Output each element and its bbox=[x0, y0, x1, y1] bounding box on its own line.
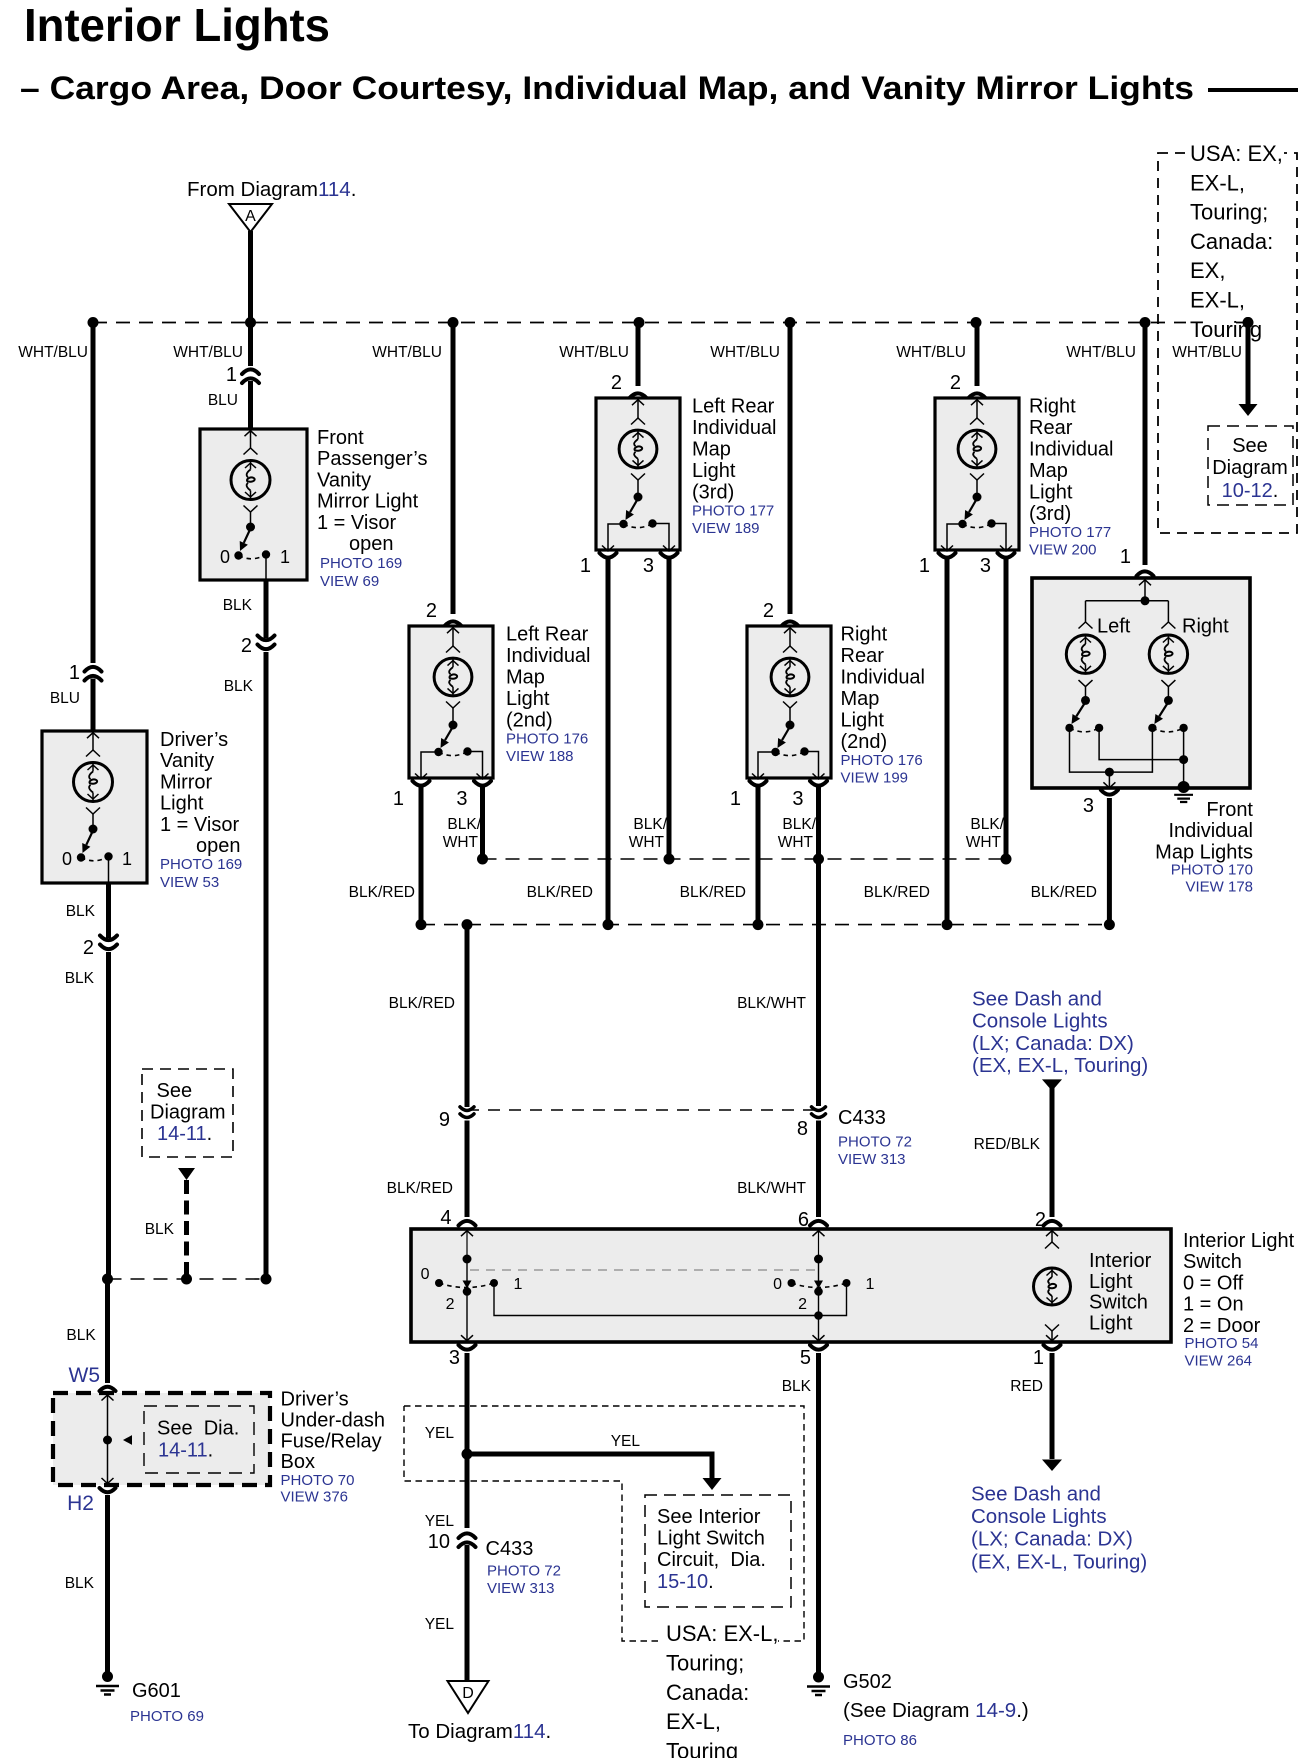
svg-text:10: 10 bbox=[428, 1531, 450, 1553]
pin 2 connector fork bbox=[969, 393, 986, 398]
svg-text:VIEW 199: VIEW 199 bbox=[841, 770, 909, 787]
junction dots BLK/WHT bbox=[477, 854, 488, 865]
svg-text:Right: Right bbox=[1182, 616, 1229, 638]
svg-text:VIEW 53: VIEW 53 bbox=[160, 874, 219, 891]
svg-text:Rear: Rear bbox=[1029, 417, 1073, 439]
svg-text:Diagram: Diagram bbox=[150, 1102, 226, 1124]
pin 3 fork (front map lights) bbox=[1101, 790, 1118, 795]
svg-text:See Dash and: See Dash and bbox=[972, 988, 1102, 1011]
svg-text:0: 0 bbox=[62, 849, 72, 869]
svg-text:Right: Right bbox=[841, 624, 888, 646]
svg-text:WHT/BLU: WHT/BLU bbox=[1172, 344, 1242, 361]
svg-text:BLU: BLU bbox=[50, 690, 80, 707]
svg-text:VIEW 264: VIEW 264 bbox=[1185, 1353, 1253, 1370]
variant dashed region (YEL branch) bbox=[404, 1406, 804, 1641]
wire: driver vanity lamp to connector 2 (BLK) bbox=[106, 883, 111, 938]
C433 cavity 9 chevrons bbox=[460, 1107, 474, 1111]
svg-text:Individual: Individual bbox=[841, 667, 926, 689]
svg-text:9: 9 bbox=[439, 1109, 450, 1131]
pin 2 connector fork bbox=[782, 621, 799, 626]
svg-text:VIEW 200: VIEW 200 bbox=[1029, 542, 1097, 559]
svg-text:3: 3 bbox=[449, 1347, 460, 1369]
C433 cavity 8 chevrons bbox=[812, 1107, 826, 1111]
interior light switch internals: pin 6 entry bbox=[813, 1231, 825, 1237]
svg-text:Vanity: Vanity bbox=[317, 469, 371, 491]
svg-text:Circuit, Dia.: Circuit, Dia. bbox=[657, 1549, 766, 1571]
svg-text:YEL: YEL bbox=[425, 1425, 455, 1442]
svg-text:YEL: YEL bbox=[425, 1513, 455, 1530]
svg-text:PHOTO 72: PHOTO 72 bbox=[838, 1134, 912, 1151]
svg-text:2: 2 bbox=[611, 372, 622, 394]
svg-text:BLK/WHT: BLK/WHT bbox=[737, 995, 806, 1012]
wire: C433 to switch pin 4 (BLK/RED) bbox=[465, 1121, 470, 1218]
svg-text:Light: Light bbox=[1089, 1271, 1133, 1293]
svg-text:BLK/RED: BLK/RED bbox=[527, 884, 593, 901]
off-page connector D (triangle) bbox=[448, 1681, 489, 1713]
map light switch to pins 1 and 3 bbox=[421, 752, 439, 779]
pin 2 connector fork bbox=[445, 621, 462, 626]
svg-text:1: 1 bbox=[1033, 1347, 1044, 1369]
map light lamp internals bbox=[784, 628, 796, 634]
switch pin 6 fork bbox=[810, 1221, 827, 1226]
front passenger vanity lamp internals bbox=[245, 431, 257, 437]
svg-text:Individual: Individual bbox=[1168, 820, 1253, 842]
svg-text:2: 2 bbox=[426, 600, 437, 622]
svg-text:1: 1 bbox=[919, 555, 930, 577]
svg-text:BLK: BLK bbox=[782, 1378, 812, 1395]
driver's under-dash fuse/relay box (dashed) bbox=[53, 1393, 270, 1485]
svg-text:See Interior: See Interior bbox=[657, 1506, 761, 1528]
svg-text:Left: Left bbox=[1097, 616, 1131, 638]
wire: vanity lamp to connector 2 (BLK) bbox=[264, 580, 269, 638]
switch 1 position-1 contact wiring bbox=[494, 1285, 847, 1316]
svg-text:Map Lights: Map Lights bbox=[1155, 842, 1253, 864]
svg-text:G601: G601 bbox=[132, 1680, 181, 1702]
see diagram 10-12 reference box bbox=[1208, 426, 1293, 505]
svg-text:BLK: BLK bbox=[66, 1327, 96, 1344]
svg-text:WHT/BLU: WHT/BLU bbox=[1066, 344, 1136, 361]
wire: YEL branch to interior light switch circuit bbox=[467, 1454, 712, 1479]
connector C433 cavity 10 bbox=[459, 1533, 476, 1538]
svg-text:C433: C433 bbox=[486, 1538, 534, 1560]
svg-text:1 = Visor: 1 = Visor bbox=[160, 814, 239, 836]
svg-text:4: 4 bbox=[440, 1207, 451, 1229]
interior light switch light (lamp) bbox=[1046, 1231, 1058, 1237]
map light switch to pins 1 and 3 bbox=[608, 524, 624, 551]
svg-text:USA: EX,: USA: EX, bbox=[1190, 141, 1283, 166]
svg-text:See Dia.: See Dia. bbox=[157, 1418, 239, 1440]
svg-text:2: 2 bbox=[798, 1296, 807, 1313]
junction dot YEL branch bbox=[462, 1449, 473, 1460]
switch pin 3 fork bbox=[459, 1345, 476, 1350]
wire: LR 2nd pin 1 to BLK/RED junction bbox=[419, 787, 424, 925]
see diagram 14-11 reference box bbox=[142, 1069, 233, 1157]
svg-text:PHOTO 86: PHOTO 86 bbox=[843, 1732, 917, 1749]
svg-text:1: 1 bbox=[226, 364, 237, 386]
subtitle right rule bbox=[1208, 88, 1298, 92]
svg-text:Individual: Individual bbox=[506, 645, 591, 667]
svg-text:0: 0 bbox=[421, 1266, 430, 1283]
svg-text:WHT: WHT bbox=[443, 834, 479, 851]
switch pin 2 fork bbox=[1044, 1221, 1061, 1226]
svg-text:Light: Light bbox=[692, 460, 736, 482]
svg-text:BLK/RED: BLK/RED bbox=[680, 884, 746, 901]
svg-text:15-10.: 15-10. bbox=[657, 1571, 714, 1593]
svg-text:BLK: BLK bbox=[66, 903, 96, 920]
svg-text:Light Switch: Light Switch bbox=[657, 1528, 765, 1550]
wire: switch pin 3 down (YEL) bbox=[465, 1353, 470, 1528]
right lamp (front map) bbox=[1161, 622, 1175, 629]
wire: bus to map light pin 2 bbox=[451, 323, 456, 615]
svg-text:(See Diagram 14-9.): (See Diagram 14-9.) bbox=[843, 1699, 1029, 1722]
svg-text:Switch: Switch bbox=[1183, 1251, 1242, 1273]
svg-text:(3rd): (3rd) bbox=[1029, 503, 1071, 525]
svg-text:USA: EX-L,: USA: EX-L, bbox=[666, 1621, 778, 1646]
svg-text:Switch: Switch bbox=[1089, 1292, 1148, 1314]
interior light switch internals: pin 4 entry bbox=[461, 1231, 473, 1237]
svg-text:Box: Box bbox=[281, 1451, 315, 1473]
svg-text:Light: Light bbox=[1089, 1312, 1133, 1334]
pin 1 fork bbox=[413, 781, 430, 786]
svg-text:See: See bbox=[157, 1080, 193, 1102]
pin 3 fork bbox=[474, 781, 491, 786]
svg-text:Map: Map bbox=[692, 439, 731, 461]
svg-text:1: 1 bbox=[514, 1276, 523, 1293]
variant dashed box: USA EX, EX-L, Touring bbox=[1158, 153, 1297, 533]
svg-text:(2nd): (2nd) bbox=[841, 731, 888, 753]
svg-text:1: 1 bbox=[393, 788, 404, 810]
pin 1 fork bbox=[750, 781, 767, 786]
svg-text:14-11.: 14-11. bbox=[158, 1440, 213, 1462]
map light switch bbox=[786, 721, 795, 730]
svg-text:VIEW 188: VIEW 188 bbox=[506, 748, 574, 765]
svg-text:(EX, EX-L, Touring): (EX, EX-L, Touring) bbox=[971, 1550, 1147, 1573]
svg-text:10-12.: 10-12. bbox=[1222, 480, 1279, 502]
svg-text:1: 1 bbox=[1120, 546, 1131, 568]
wire: bus to see diagram 10-12 (WHT/BLU) bbox=[1162, 340, 1244, 362]
wire: LR 3rd pin 1 to BLK/RED junction bbox=[606, 559, 611, 925]
svg-text:1 = On: 1 = On bbox=[1183, 1294, 1244, 1316]
label: USA/Canada trim list bbox=[1186, 143, 1284, 166]
wire: switch pin 5 to ground G502 (BLK) bbox=[816, 1353, 821, 1672]
svg-text:Map: Map bbox=[1029, 460, 1068, 482]
svg-text:See Dash and: See Dash and bbox=[971, 1483, 1101, 1506]
svg-text:BLK/RED: BLK/RED bbox=[1031, 884, 1097, 901]
wire: RR 3rd pin 3 to BLK/WHT junction bbox=[1004, 559, 1009, 859]
wire: bus to map light pin 2 bbox=[975, 323, 980, 387]
internal ground (front map lights) bbox=[1178, 781, 1190, 793]
wire: C433 to switch pin 6 (BLK/WHT) bbox=[816, 1121, 821, 1218]
svg-text:Map: Map bbox=[841, 688, 880, 710]
svg-text:Passenger’s: Passenger’s bbox=[317, 448, 427, 470]
svg-text:VIEW 69: VIEW 69 bbox=[320, 573, 379, 590]
svg-text:2: 2 bbox=[763, 600, 774, 622]
svg-text:BLK/RED: BLK/RED bbox=[864, 884, 930, 901]
svg-text:EX-L,: EX-L, bbox=[1190, 170, 1245, 195]
svg-text:G502: G502 bbox=[843, 1671, 892, 1693]
svg-text:2: 2 bbox=[83, 937, 94, 959]
svg-text:Individual: Individual bbox=[692, 417, 777, 439]
svg-text:BLK/WHT: BLK/WHT bbox=[737, 1180, 806, 1197]
svg-text:PHOTO 70: PHOTO 70 bbox=[281, 1472, 355, 1489]
junction: vanity returns / ground lead (dashed link) bbox=[108, 1278, 267, 1280]
svg-text:PHOTO 176: PHOTO 176 bbox=[506, 731, 588, 748]
pin 1 fork bbox=[939, 553, 956, 558]
inner see dia. 14-11 box bbox=[144, 1406, 254, 1473]
map light component box bbox=[409, 626, 493, 778]
svg-text:Right: Right bbox=[1029, 396, 1076, 418]
svg-text:3: 3 bbox=[792, 788, 803, 810]
svg-text:Interior: Interior bbox=[1089, 1250, 1152, 1272]
svg-text:Vanity: Vanity bbox=[160, 750, 214, 772]
front map internal wiring to pin 3 bbox=[1070, 730, 1153, 772]
wire: LR 3rd pin 3 to BLK/WHT junction bbox=[667, 559, 672, 859]
svg-text:EX,: EX, bbox=[1190, 258, 1225, 283]
off-page connector A (triangle) bbox=[229, 204, 272, 232]
svg-text:3: 3 bbox=[980, 555, 991, 577]
svg-text:BLK/: BLK/ bbox=[782, 816, 816, 833]
svg-text:Map: Map bbox=[506, 667, 545, 689]
svg-text:(EX, EX-L, Touring): (EX, EX-L, Touring) bbox=[972, 1054, 1148, 1077]
switch 1 (door switch A) bbox=[466, 1261, 468, 1281]
svg-text:Touring;: Touring; bbox=[666, 1650, 744, 1675]
svg-text:Light: Light bbox=[841, 710, 885, 732]
svg-text:WHT/BLU: WHT/BLU bbox=[18, 344, 88, 361]
svg-text:Canada:: Canada: bbox=[666, 1680, 749, 1705]
svg-text:WHT: WHT bbox=[778, 834, 814, 851]
map light component box bbox=[596, 398, 680, 550]
svg-text:2 = Door: 2 = Door bbox=[1183, 1315, 1261, 1337]
svg-text:WHT/BLU: WHT/BLU bbox=[710, 344, 780, 361]
svg-text:Interior Lights: Interior Lights bbox=[24, 0, 330, 51]
svg-text:BLK/: BLK/ bbox=[970, 816, 1004, 833]
svg-text:Mirror Light: Mirror Light bbox=[317, 491, 419, 513]
svg-text:A: A bbox=[245, 208, 256, 225]
wire: connector 1 to lamp box bbox=[248, 381, 253, 430]
svg-text:PHOTO 169: PHOTO 169 bbox=[320, 555, 402, 572]
wire: bus to connector 1 (front passenger vanity feed) bbox=[248, 323, 253, 367]
bus: dashed WHT/BLU distribution line bbox=[93, 322, 1248, 324]
svg-text:0: 0 bbox=[773, 1276, 782, 1293]
svg-text:Interior Light: Interior Light bbox=[1183, 1230, 1295, 1252]
wire: RR 3rd pin 1 to BLK/RED junction bbox=[945, 559, 950, 925]
svg-text:PHOTO 54: PHOTO 54 bbox=[1185, 1335, 1259, 1352]
left lamp lower fork and switch bbox=[1079, 680, 1093, 687]
wire: H2 to ground G601 (BLK) bbox=[105, 1495, 110, 1672]
wire: bus to map light pin 2 bbox=[788, 323, 793, 615]
svg-text:1: 1 bbox=[122, 849, 132, 869]
svg-text:2: 2 bbox=[446, 1296, 455, 1313]
svg-text:1 = Visor: 1 = Visor bbox=[317, 512, 396, 534]
junction: BLK/RED bus (dashed) bbox=[421, 924, 1109, 926]
svg-text:Fuse/Relay: Fuse/Relay bbox=[281, 1430, 382, 1452]
switch pin 1 fork bbox=[1044, 1345, 1061, 1350]
map light switch to pins 1 and 3 bbox=[758, 752, 776, 779]
svg-text:RED/BLK: RED/BLK bbox=[974, 1136, 1041, 1153]
svg-text:PHOTO 69: PHOTO 69 bbox=[130, 1708, 204, 1725]
inline connector cavity 2 (front passenger vanity return) bbox=[258, 636, 275, 641]
driver vanity lamp internals bbox=[87, 733, 99, 739]
front passenger's vanity mirror light: component box bbox=[200, 429, 307, 580]
svg-text:To Diagram114.: To Diagram114. bbox=[408, 1720, 551, 1743]
driver vanity switch bbox=[89, 825, 98, 834]
svg-text:PHOTO 72: PHOTO 72 bbox=[487, 1563, 561, 1580]
wire: RR 2nd pin 3 (BLK/WHT) down to C433 and switch bbox=[816, 787, 821, 1106]
svg-text:Mirror: Mirror bbox=[160, 771, 213, 793]
map light component box bbox=[935, 398, 1019, 550]
svg-text:3: 3 bbox=[643, 555, 654, 577]
wire: to switch pin 2 (RED/BLK) bbox=[1050, 1085, 1055, 1217]
svg-text:WHT/BLU: WHT/BLU bbox=[559, 344, 629, 361]
svg-text:2: 2 bbox=[950, 372, 961, 394]
svg-text:5: 5 bbox=[800, 1347, 811, 1369]
front passenger vanity switch bbox=[246, 523, 255, 532]
svg-text:Diagram: Diagram bbox=[1212, 457, 1288, 479]
svg-text:14-11.: 14-11. bbox=[157, 1123, 212, 1145]
front individual map lights: component box bbox=[1032, 578, 1250, 788]
interior light switch: component box bbox=[411, 1229, 1171, 1342]
wire: front map pin 3 to BLK/RED junction bbox=[1107, 798, 1112, 925]
svg-text:(LX; Canada: DX): (LX; Canada: DX) bbox=[971, 1528, 1133, 1551]
svg-text:3: 3 bbox=[456, 788, 467, 810]
svg-text:RED: RED bbox=[1010, 1378, 1043, 1395]
svg-text:C433: C433 bbox=[838, 1107, 886, 1129]
svg-text:See: See bbox=[1232, 435, 1268, 457]
driver's vanity mirror light: component box bbox=[42, 731, 147, 883]
wire: bus to front individual map lights pin 1 (WHT/BLU) bbox=[1143, 323, 1148, 566]
wire: bus to connector 1 (driver vanity feed, WHT/BLU) bbox=[91, 323, 96, 664]
wire: connector 2 to ground junction bbox=[106, 952, 111, 1279]
arrow from dash/console lights circuit bbox=[1042, 1079, 1062, 1091]
svg-text:BLK/RED: BLK/RED bbox=[389, 995, 455, 1012]
dashed BLK wire from 14-11 branch bbox=[184, 1180, 189, 1279]
svg-text:(2nd): (2nd) bbox=[506, 710, 553, 732]
svg-text:WHT/BLU: WHT/BLU bbox=[896, 344, 966, 361]
label: USA EX-L Touring (bottom variant) bbox=[662, 1622, 778, 1646]
right lamp lower fork and switch bbox=[1161, 680, 1175, 687]
map light switch to pins 1 and 3 bbox=[947, 524, 963, 551]
map light switch bbox=[449, 721, 458, 730]
inline connector cavity 2 (driver vanity return) bbox=[100, 936, 117, 941]
svg-text:VIEW 189: VIEW 189 bbox=[692, 520, 760, 537]
svg-text:PHOTO 177: PHOTO 177 bbox=[1029, 524, 1111, 541]
svg-text:BLK/: BLK/ bbox=[633, 816, 667, 833]
map light lamp internals bbox=[632, 400, 644, 406]
svg-text:Driver’s: Driver’s bbox=[281, 1389, 349, 1411]
svg-text:Driver’s: Driver’s bbox=[160, 729, 228, 751]
svg-text:BLK: BLK bbox=[224, 678, 254, 695]
svg-text:WHT: WHT bbox=[966, 834, 1002, 851]
svg-text:(3rd): (3rd) bbox=[692, 482, 734, 504]
svg-text:EX-L,: EX-L, bbox=[666, 1709, 721, 1734]
svg-text:open: open bbox=[349, 533, 394, 555]
inline connector cavity 1 (driver vanity) bbox=[85, 667, 102, 672]
svg-text:From Diagram114.: From Diagram114. bbox=[187, 178, 356, 201]
svg-text:PHOTO 177: PHOTO 177 bbox=[692, 503, 774, 520]
wire: switch pin 1 to dash/console lights (RED) bbox=[1050, 1353, 1055, 1459]
wire: connector 1 to driver vanity box bbox=[91, 679, 96, 733]
pin 1 fork bbox=[600, 553, 617, 558]
svg-text:VIEW 178: VIEW 178 bbox=[1185, 879, 1253, 896]
svg-text:open: open bbox=[196, 835, 241, 857]
svg-text:Console Lights: Console Lights bbox=[972, 1010, 1108, 1033]
svg-text:Individual: Individual bbox=[1029, 439, 1114, 461]
svg-text:VIEW 313: VIEW 313 bbox=[838, 1151, 906, 1168]
arrow from 14-11 box bbox=[178, 1168, 195, 1180]
junction: BLK/WHT bus (dashed) bbox=[483, 858, 1007, 860]
svg-text:Front: Front bbox=[317, 427, 364, 449]
svg-text:Touring: Touring bbox=[666, 1739, 738, 1758]
front map internal wiring to ground bbox=[1099, 730, 1184, 760]
svg-text:1: 1 bbox=[866, 1276, 875, 1293]
svg-text:1: 1 bbox=[280, 547, 290, 567]
driver vanity lamp lower fork bbox=[86, 808, 100, 815]
inline connector cavity 1 (front passenger vanity) bbox=[242, 369, 259, 374]
ground G502 bbox=[813, 1672, 824, 1683]
map light switch bbox=[973, 493, 982, 502]
wire: C433 to connector D (YEL) bbox=[465, 1545, 470, 1681]
switch pin 4 fork bbox=[459, 1221, 476, 1226]
map light lamp internals bbox=[447, 628, 459, 634]
wire: connector 2 to ground junction bbox=[264, 652, 269, 1279]
switch pin 5 fork bbox=[810, 1345, 827, 1350]
map light component box bbox=[747, 626, 831, 778]
svg-text:WHT/BLU: WHT/BLU bbox=[173, 344, 243, 361]
wire: bus to map light pin 2 bbox=[636, 323, 641, 387]
svg-text:8: 8 bbox=[797, 1118, 808, 1140]
connector C433 dashed link bbox=[467, 1109, 819, 1111]
svg-text:BLK: BLK bbox=[65, 970, 95, 987]
svg-text:0: 0 bbox=[220, 547, 230, 567]
wire: connector A to bus (WHT/BLU) bbox=[248, 231, 253, 322]
pin 3 fork bbox=[810, 781, 827, 786]
svg-text:3: 3 bbox=[1083, 795, 1094, 817]
svg-text:Rear: Rear bbox=[841, 645, 885, 667]
ground G601 bbox=[102, 1671, 113, 1682]
svg-text:VIEW 376: VIEW 376 bbox=[281, 1489, 349, 1506]
svg-text:PHOTO 169: PHOTO 169 bbox=[160, 856, 242, 873]
svg-text:D: D bbox=[462, 1685, 474, 1702]
svg-text:1: 1 bbox=[580, 555, 591, 577]
svg-text:– Cargo Area, Door Courtesy, I: – Cargo Area, Door Courtesy, Individual … bbox=[20, 70, 1194, 106]
wire: BLK/RED riser junction to C433 cavity 9 bbox=[465, 925, 470, 1107]
svg-text:Light: Light bbox=[1029, 482, 1073, 504]
wire: junction to W5 (BLK) bbox=[105, 1279, 110, 1383]
svg-text:YEL: YEL bbox=[611, 1433, 641, 1450]
svg-text:Light: Light bbox=[160, 793, 204, 815]
pin 3 fork bbox=[998, 553, 1015, 558]
svg-text:2: 2 bbox=[241, 635, 252, 657]
junction dots BLK/RED bbox=[416, 919, 427, 930]
map light lamp internals bbox=[971, 400, 983, 406]
switch 2 (door switch B) bbox=[818, 1261, 820, 1281]
wire: LR 2nd pin 3 to BLK/WHT junction bbox=[480, 787, 485, 859]
svg-text:BLK/RED: BLK/RED bbox=[349, 884, 415, 901]
fuse box internal circuit bbox=[102, 1395, 114, 1401]
ganged switch link (gray dashed) bbox=[470, 1269, 817, 1271]
svg-text:WHT: WHT bbox=[629, 834, 665, 851]
svg-text:PHOTO 170: PHOTO 170 bbox=[1171, 862, 1253, 879]
svg-text:PHOTO 176: PHOTO 176 bbox=[841, 752, 923, 769]
svg-text:Touring;: Touring; bbox=[1190, 200, 1268, 225]
svg-text:BLK: BLK bbox=[223, 597, 253, 614]
svg-text:BLK: BLK bbox=[65, 1575, 95, 1592]
pin 2 connector fork bbox=[630, 393, 647, 398]
svg-text:BLU: BLU bbox=[208, 392, 238, 409]
front map lights feed distribution bbox=[1139, 580, 1151, 586]
svg-text:BLK/RED: BLK/RED bbox=[387, 1180, 453, 1197]
svg-text:BLK: BLK bbox=[145, 1221, 175, 1238]
